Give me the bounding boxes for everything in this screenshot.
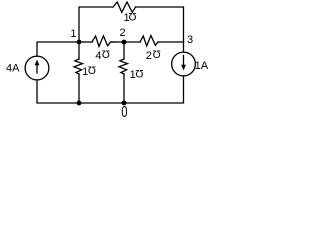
svg-text:1: 1 bbox=[70, 28, 76, 40]
svg-text:Ω: Ω bbox=[128, 10, 136, 22]
wire left branch top (corner to 4A source) bbox=[37, 42, 79, 56]
wire node1 down to resistor bbox=[78, 42, 80, 59]
resistor 1 mho vertical at node2 bbox=[119, 59, 128, 74]
svg-text:4A: 4A bbox=[6, 63, 20, 75]
svg-text:4: 4 bbox=[95, 50, 101, 62]
svg-text:Ω: Ω bbox=[152, 48, 160, 60]
wire node2 to 2mho resistor bbox=[124, 41, 140, 43]
svg-text:Ω: Ω bbox=[88, 64, 96, 76]
svg-text:2: 2 bbox=[146, 50, 152, 62]
wire left branch bottom bbox=[37, 80, 79, 103]
wire node2 down to resistor bbox=[123, 42, 125, 59]
current source I1 4A circle bbox=[25, 56, 49, 80]
resistor 4 mho (node1-node2) bbox=[92, 36, 114, 47]
svg-text:0: 0 bbox=[121, 103, 127, 120]
current source I1 arrow up bbox=[36, 64, 38, 74]
resistor 1 mho top (node1-node3) bbox=[113, 2, 136, 12]
svg-text:3: 3 bbox=[187, 34, 193, 46]
current source I2 arrow down bbox=[183, 56, 185, 65]
current source I2 1A circle bbox=[172, 52, 196, 76]
wire node1 resistor to bottom rail bbox=[78, 74, 80, 103]
node 0 junction dot bbox=[122, 101, 127, 106]
svg-text:2: 2 bbox=[120, 27, 126, 39]
svg-text:Ω: Ω bbox=[135, 67, 143, 79]
wire 4mho to node2 bbox=[114, 41, 124, 43]
svg-text:1A: 1A bbox=[195, 60, 209, 72]
bottom rail junction dot below node1 bbox=[77, 101, 82, 106]
resistor 1 mho vertical at node1 bbox=[74, 59, 83, 74]
wire bottom rail right bbox=[124, 76, 184, 103]
svg-text:1: 1 bbox=[130, 69, 136, 81]
wire bottom rail mid bbox=[79, 102, 124, 104]
resistor 2 mho (node2-node3) bbox=[140, 36, 158, 47]
node 2 junction dot bbox=[122, 40, 127, 45]
wire node2 resistor to bottom rail bbox=[123, 74, 125, 103]
wire top rail left segment (node 1 riser to resistor) bbox=[79, 7, 113, 42]
wire top rail right segment bbox=[136, 7, 184, 52]
wire node1 to 4mho resistor bbox=[79, 41, 92, 43]
node 1 junction dot bbox=[77, 40, 82, 45]
wire 2mho to node3 bbox=[158, 41, 183, 43]
svg-text:1: 1 bbox=[82, 66, 88, 78]
svg-text:Ω: Ω bbox=[102, 48, 110, 60]
